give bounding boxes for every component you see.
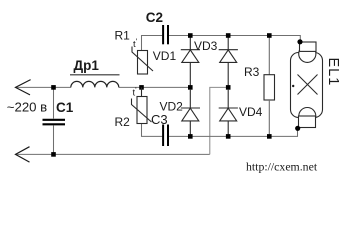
svg-text:EL1: EL1: [325, 58, 341, 87]
node C1 bottom: [51, 152, 56, 157]
wire bottom rail: [16, 153, 210, 155]
thermistor R1: [132, 47, 153, 75]
diode VD2: [181, 89, 200, 136]
arrow input top: [16, 80, 31, 95]
svg-text:C2: C2: [146, 10, 163, 25]
wire mid rail left: [16, 86, 191, 88]
lamp EL1 gas dot: [292, 85, 294, 87]
node VD3 top: [226, 33, 231, 38]
svg-text:R2: R2: [115, 115, 131, 129]
diode VD3: [219, 36, 238, 88]
inductor Др1: [71, 81, 119, 87]
capacitor C1: [53, 87, 55, 154]
lamp EL1 electrodes cross: [298, 75, 318, 95]
svg-text:R1: R1: [115, 29, 131, 43]
node VD1/VD2 mid: [188, 85, 193, 90]
diode VD1: [181, 36, 200, 88]
svg-text:VD3: VD3: [194, 39, 218, 53]
node C1 top: [51, 85, 56, 90]
capacitor C3: [163, 125, 168, 147]
node VD2 bottom: [188, 134, 193, 139]
svg-text:C3: C3: [151, 112, 168, 127]
node lamp bottom: [295, 126, 300, 131]
node VD4 bottom: [226, 134, 231, 139]
svg-text:C1: C1: [56, 100, 74, 115]
wire crossing from bottom rail to VD3/VD4 node: [210, 87, 228, 154]
svg-text:~220 в: ~220 в: [7, 100, 47, 115]
lamp EL1 top cap: [300, 42, 317, 51]
arrow input bottom: [16, 147, 30, 162]
diode VD4: [219, 89, 238, 136]
node R3 bottom: [267, 134, 272, 139]
node VD1 top: [188, 33, 193, 38]
thermistor R2: [132, 87, 152, 123]
node VD3/VD4 mid: [226, 85, 231, 90]
svg-text:R3: R3: [244, 65, 260, 79]
node R3 top: [267, 33, 272, 38]
lamp EL1 bulb: [291, 53, 323, 118]
node R1 bottom: [139, 85, 144, 90]
node lamp top: [297, 39, 302, 44]
svg-text:VD4: VD4: [239, 105, 263, 119]
lamp EL1 top electrode dome: [299, 45, 316, 62]
capacitor C2: [163, 25, 168, 44]
lamp EL1 bottom cap: [299, 116, 316, 128]
svg-text:VD1: VD1: [153, 49, 177, 63]
wire bridge output row: [142, 124, 298, 137]
svg-text:VD2: VD2: [160, 99, 184, 113]
resistor R3: [264, 36, 275, 137]
svg-text:http://cxem.net: http://cxem.net: [246, 160, 318, 174]
lamp EL1 bottom electrode dome: [299, 108, 316, 125]
wire top rail: [142, 36, 301, 51]
svg-text:Др1: Др1: [74, 58, 100, 73]
label Др1 underline: [70, 74, 120, 76]
